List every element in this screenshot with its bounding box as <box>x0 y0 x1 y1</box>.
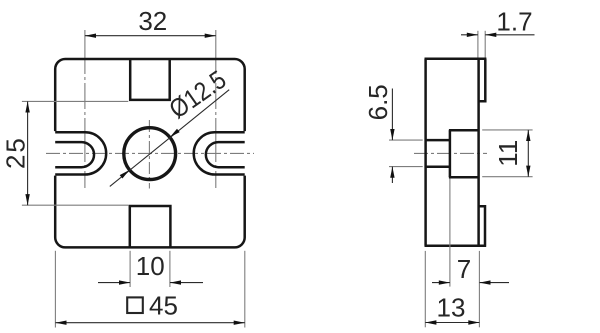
dimension 11 extension bottom <box>482 176 532 178</box>
dimension 6.5 arrow up <box>390 167 394 178</box>
centerline vertical through circle <box>148 120 150 189</box>
diameter leader line <box>110 90 229 187</box>
bottom notch <box>130 206 171 247</box>
svg-text:1.7: 1.7 <box>496 7 532 37</box>
dimension 1.7 arrow left <box>467 33 478 37</box>
top notch <box>130 59 170 100</box>
dimension 10 line right tail <box>170 282 203 284</box>
dimension 25 arrow bottom <box>25 194 29 205</box>
dimension 6.5 extension top <box>389 139 423 141</box>
centerline horizontal side view <box>414 152 487 154</box>
svg-text:11: 11 <box>493 140 523 167</box>
svg-text:7: 7 <box>457 254 471 284</box>
svg-text:13: 13 <box>437 292 466 322</box>
dimension 32 arrow left <box>85 34 96 38</box>
diameter arrow upper-right <box>170 129 180 138</box>
svg-text:32: 32 <box>138 6 167 36</box>
side view slot front opening top edge <box>426 139 450 142</box>
side view outline <box>425 59 487 246</box>
dimension 25 line <box>27 101 29 205</box>
dimension square45 extension right <box>244 251 246 328</box>
front view outline rounded square <box>55 59 245 247</box>
dimension 7 arrow right <box>479 280 490 284</box>
dimension 6.5 lower line <box>391 167 393 183</box>
dimension 10 extension left <box>129 251 131 287</box>
dimension 11 arrow bottom <box>526 166 530 177</box>
dimension 1.7 left tail <box>461 34 478 36</box>
side view slot rear opening left edge <box>449 130 452 177</box>
dimension 11 line <box>527 130 529 177</box>
dimension 10 arrow right <box>170 280 181 284</box>
dimension 7 extension left <box>449 179 451 287</box>
dimension 7 arrow left <box>439 280 450 284</box>
dimension 7 right tail <box>479 282 509 284</box>
dimension 10 line left tail <box>98 282 130 284</box>
dimension 10 arrow left <box>119 280 130 284</box>
dimension 25 arrow top <box>25 101 29 112</box>
dimension 1.7 extension left <box>477 31 479 58</box>
dimension 7 extension right shared with 13 <box>478 251 480 327</box>
left slot outer contour <box>55 132 106 174</box>
left slot inner contour <box>55 142 94 167</box>
dimension 6.5 arrow down <box>390 129 394 140</box>
dimension 13 arrow left <box>425 320 436 324</box>
dimension 1.7 right tail <box>485 34 534 36</box>
centerline horizontal front view <box>46 152 254 154</box>
dimension 32 line <box>85 35 216 37</box>
dimension square45 extension left <box>54 251 56 328</box>
dimension 10 extension right <box>169 251 171 287</box>
dimension 1.7 extension right <box>484 31 486 58</box>
side view slot front opening bottom edge <box>426 166 450 169</box>
right slot inner contour <box>206 142 245 167</box>
dimension 1.7 arrow right <box>485 33 496 37</box>
dimension square45 square symbol <box>127 297 143 313</box>
svg-text:10: 10 <box>136 251 165 281</box>
dimension 25 extension bottom <box>22 204 128 206</box>
dimension 7 left tail <box>432 282 450 284</box>
diameter arrow lower-left <box>120 170 130 179</box>
dimension 13 line <box>425 322 479 324</box>
dimension 32 arrow right <box>205 34 216 38</box>
dimension square45 arrow left <box>55 321 66 325</box>
dimension square45 arrow right <box>234 321 245 325</box>
svg-text:45: 45 <box>149 290 178 320</box>
dimension 6.5 extension bottom <box>389 166 423 168</box>
dimension 6.5 upper line <box>391 89 393 141</box>
dimension 13 extension left <box>424 251 426 327</box>
center hole circle <box>124 128 176 180</box>
slot center line right / extension of dim 32 <box>215 30 217 188</box>
side view slot rear opening top edge <box>449 129 479 132</box>
dimension square45 line <box>55 322 244 324</box>
dimension 11 extension top <box>482 129 532 131</box>
side view slot rear opening bottom edge <box>449 176 479 179</box>
slot center line left / extension of dim 32 <box>84 30 86 188</box>
dimension 13 arrow right <box>468 320 479 324</box>
dimension 25 extension top <box>22 100 128 102</box>
right slot outer contour <box>194 132 245 174</box>
svg-text:25: 25 <box>0 136 30 169</box>
dimension 11 arrow top <box>526 130 530 141</box>
svg-text:6.5: 6.5 <box>363 84 393 120</box>
